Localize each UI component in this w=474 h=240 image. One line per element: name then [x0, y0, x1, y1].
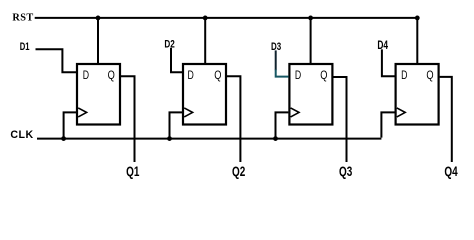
wire U3 Q to Q3	[333, 77, 346, 162]
junction dot RST-U2	[203, 16, 208, 21]
junction dot RST-U4	[415, 16, 420, 21]
junction dot RST-U1	[96, 16, 101, 21]
wire RST to U3	[310, 18, 312, 63]
svg-text:Q3: Q3	[339, 163, 352, 179]
flip-flop U4 box	[396, 64, 439, 125]
flip-flop U1 box	[77, 64, 120, 125]
svg-text:CLK: CLK	[10, 129, 33, 141]
wire RST to U2	[204, 18, 206, 63]
junction dot CLK-U3	[273, 136, 278, 141]
flip-flop U2 box	[183, 64, 226, 125]
junction dot CLK-U1	[61, 136, 66, 141]
flip-flop U3 box	[289, 64, 332, 125]
svg-text:D: D	[188, 70, 194, 82]
svg-text:RST: RST	[12, 13, 33, 24]
wire D3 to U3 lower segment (teal)	[276, 70, 289, 77]
wire CLK bus	[37, 138, 381, 140]
svg-text:Q1: Q1	[126, 163, 139, 179]
svg-text:Q: Q	[426, 70, 433, 82]
wire U4 Q to Q4	[440, 77, 452, 162]
wire D1 to U1	[36, 49, 77, 72]
svg-text:D2: D2	[164, 38, 174, 50]
wire D3 to U3 upper segment	[275, 50, 277, 70]
svg-text:Q4: Q4	[444, 163, 457, 179]
junction dot CLK-U2	[167, 136, 172, 141]
svg-text:Q: Q	[320, 70, 327, 82]
wire CLK to U4	[381, 112, 394, 137]
wire RST bus	[35, 17, 418, 19]
svg-text:Q: Q	[108, 70, 115, 82]
svg-text:D1: D1	[20, 41, 30, 53]
wire RST to U4	[416, 18, 418, 63]
wire D2 to U2	[171, 48, 182, 72]
wire U1 Q to Q1	[121, 76, 135, 162]
svg-text:D4: D4	[377, 40, 388, 52]
wire CLK to U3	[276, 112, 289, 138]
svg-text:Q2: Q2	[232, 163, 245, 179]
wire CLK to U1	[64, 112, 76, 138]
svg-text:D: D	[401, 70, 407, 82]
svg-text:D: D	[295, 70, 301, 82]
wire CLK to U2	[170, 112, 183, 138]
wire D4 to U4	[382, 49, 395, 76]
wire RST to U1	[97, 18, 99, 63]
svg-text:Q: Q	[214, 70, 221, 82]
junction dot RST-U3	[308, 16, 313, 21]
wire U2 Q to Q2	[227, 76, 240, 162]
svg-text:D: D	[83, 70, 89, 82]
